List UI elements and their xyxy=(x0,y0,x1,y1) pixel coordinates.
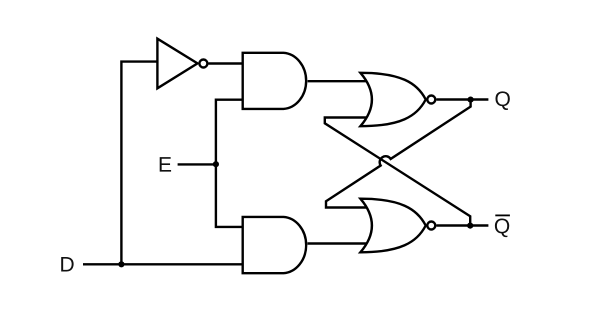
AND gate A1 (top) xyxy=(243,53,306,109)
node D junction xyxy=(118,261,124,267)
wire E branch to AND1 lower input and AND2 upper input xyxy=(216,100,243,227)
wire NOR1 output to Q xyxy=(436,98,488,100)
wire NOR2 output to Q-bar xyxy=(436,224,488,226)
AND gate A2 (bottom) xyxy=(243,217,306,273)
label Q-bar xyxy=(495,219,509,238)
label Q-bar overline xyxy=(495,214,510,216)
wire inverter output to AND1 top input xyxy=(209,62,243,64)
wire feedback from Q node to NOR2 upper input with hop over xyxy=(326,100,471,208)
label Q xyxy=(495,91,509,110)
wire feedback from Q-bar node to NOR1 lower input xyxy=(325,118,470,226)
wire AND2 output to NOR2 bottom input xyxy=(308,242,368,244)
label D xyxy=(61,257,73,271)
NOR gate U3 (bottom) body xyxy=(360,199,425,253)
wire D input lead xyxy=(83,263,243,265)
node Q-bar junction xyxy=(467,223,473,229)
wire AND1 output to NOR1 top input xyxy=(308,80,367,82)
inverter U1 triangle xyxy=(157,39,197,89)
NOR gate U2 output bubble xyxy=(427,96,435,104)
node Q junction xyxy=(468,97,474,103)
NOR gate U2 (top) body xyxy=(360,73,425,126)
node E junction xyxy=(213,161,219,167)
NOR gate U3 output bubble xyxy=(427,222,435,230)
wire E input lead xyxy=(178,163,216,165)
inverter U1 output bubble xyxy=(199,60,207,68)
label E xyxy=(160,157,171,171)
wire D vertical riser to inverter xyxy=(121,62,157,265)
